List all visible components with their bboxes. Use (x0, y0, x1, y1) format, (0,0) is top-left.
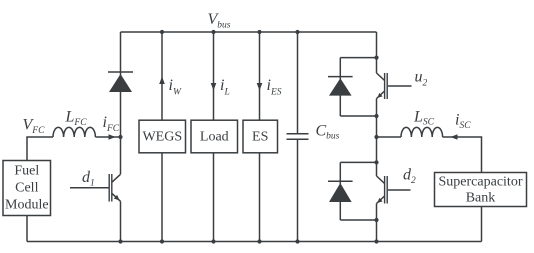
svg-text:iSC: iSC (455, 112, 471, 132)
wire Cbus bottom (297, 139, 299, 241)
svg-text:Fuel: Fuel (14, 164, 39, 179)
transistor d2 emitter (377, 196, 385, 204)
wire Load bottom (213, 153, 215, 242)
svg-text:Cbus: Cbus (316, 123, 340, 142)
capacitor Cbus plates (287, 134, 309, 139)
diode u2 triangle (329, 78, 352, 95)
wire d2 diode branch (339, 162, 341, 220)
wire d2 diode bottom connector (340, 219, 376, 221)
node dot u2 diode top (374, 56, 378, 60)
node dot d2 diode bottom (374, 218, 378, 222)
wire WEGS top (161, 32, 163, 120)
wire d1 emitter to bottom rail (120, 201, 122, 241)
svg-text:Bank: Bank (466, 191, 496, 206)
wire fuel cell to inductor (27, 137, 53, 161)
svg-text:ES: ES (252, 130, 268, 145)
inductor L_FC (53, 127, 95, 137)
node dot bus-WEGS (160, 30, 164, 34)
wire d2 emitter to bottom rail (376, 204, 378, 242)
wire supercap box bottom (481, 207, 483, 242)
wire FC diode/IGBT branch upper (120, 32, 122, 174)
node dot bus-ES (257, 30, 261, 34)
svg-text:iFC: iFC (103, 114, 120, 134)
node dot rail-Cbus (295, 239, 299, 243)
wire u2 diode top connector (340, 57, 376, 59)
wire Cbus top (297, 32, 299, 134)
node dot d2 diode top (374, 160, 378, 164)
wire bottom rail (27, 241, 482, 243)
node dot bus-Cbus (295, 30, 299, 34)
diode FC triangle (109, 74, 132, 92)
wire u2 emitter to d2 collector (376, 99, 378, 177)
wire iFC segment (95, 136, 120, 138)
node dot rail-d2 (374, 239, 378, 243)
transistor d1 collector (112, 174, 121, 182)
transistor u2 bars (385, 73, 388, 99)
arrow iW up (159, 77, 165, 85)
transistor d2 bars (385, 176, 388, 204)
svg-text:LFC: LFC (65, 109, 88, 129)
svg-text:Cell: Cell (15, 181, 38, 196)
arrow d2 emitter (377, 198, 382, 203)
node dot u2 diode bottom (374, 114, 378, 118)
svg-text:d2: d2 (403, 167, 416, 187)
node dot rail-d1 (118, 239, 122, 243)
wire ES bottom (259, 153, 261, 242)
svg-text:u2: u2 (415, 69, 428, 89)
svg-text:Module: Module (5, 198, 49, 213)
wire Load top (213, 32, 215, 120)
node dot rail-WEGS (160, 239, 164, 243)
transistor u2 emitter (377, 91, 385, 99)
arrow u2 emitter (377, 93, 382, 98)
node dot rail-ES (257, 239, 261, 243)
svg-text:iL: iL (220, 77, 230, 98)
wire WEGS bottom (161, 153, 163, 242)
wire u2 diode branch (339, 58, 341, 116)
box Supercapacitor Bank (435, 173, 527, 207)
svg-text:Load: Load (200, 130, 229, 145)
svg-text:VFC: VFC (23, 117, 46, 137)
svg-text:Vbus: Vbus (208, 11, 231, 31)
arrow iES down (257, 83, 263, 91)
transistor d1 gate (70, 187, 109, 189)
wire right leg upper (bus to u2 collector) (376, 32, 378, 73)
arrow iSC left (451, 134, 458, 140)
svg-text:iW: iW (169, 77, 182, 98)
diode u2 cathode bar (328, 76, 353, 78)
transistor d2 gate (388, 189, 411, 191)
arrow iL down (211, 83, 217, 91)
box Fuel Cell Module (3, 161, 51, 216)
wire ES top (259, 32, 261, 120)
wire LSC to supercap box (443, 137, 482, 173)
wire d2 diode top connector (340, 161, 376, 163)
node dot bus-Load (211, 30, 215, 34)
wire node to LSC inductor (377, 136, 402, 138)
box WEGS (139, 120, 186, 153)
wire top bus (121, 31, 377, 33)
arrow d1 emitter (114, 195, 120, 201)
svg-text:Supercapacitor: Supercapacitor (439, 175, 523, 190)
box Load (191, 120, 238, 153)
inductor L_SC (401, 127, 443, 137)
diode d2 triangle (329, 183, 352, 202)
diode d2 cathode bar (328, 180, 353, 182)
node dot iFC junction (118, 135, 122, 139)
node dot LSC tap (374, 135, 378, 139)
wire fuel cell bottom (26, 216, 28, 242)
node dot rail-Load (211, 239, 215, 243)
arrow iFC right (109, 134, 116, 140)
svg-text:WEGS: WEGS (142, 130, 182, 145)
transistor u2 collector (377, 73, 385, 81)
transistor d1 emitter (112, 193, 121, 201)
transistor Q d1 bars (109, 174, 112, 202)
transistor u2 gate (388, 85, 412, 87)
svg-text:iES: iES (267, 77, 282, 98)
diode FC cathode bar (108, 71, 133, 73)
svg-text:d1: d1 (82, 169, 95, 189)
wire u2 diode bottom connector (340, 115, 376, 117)
transistor d2 collector (377, 176, 385, 184)
box ES (243, 120, 278, 153)
svg-text:LSC: LSC (413, 109, 435, 128)
